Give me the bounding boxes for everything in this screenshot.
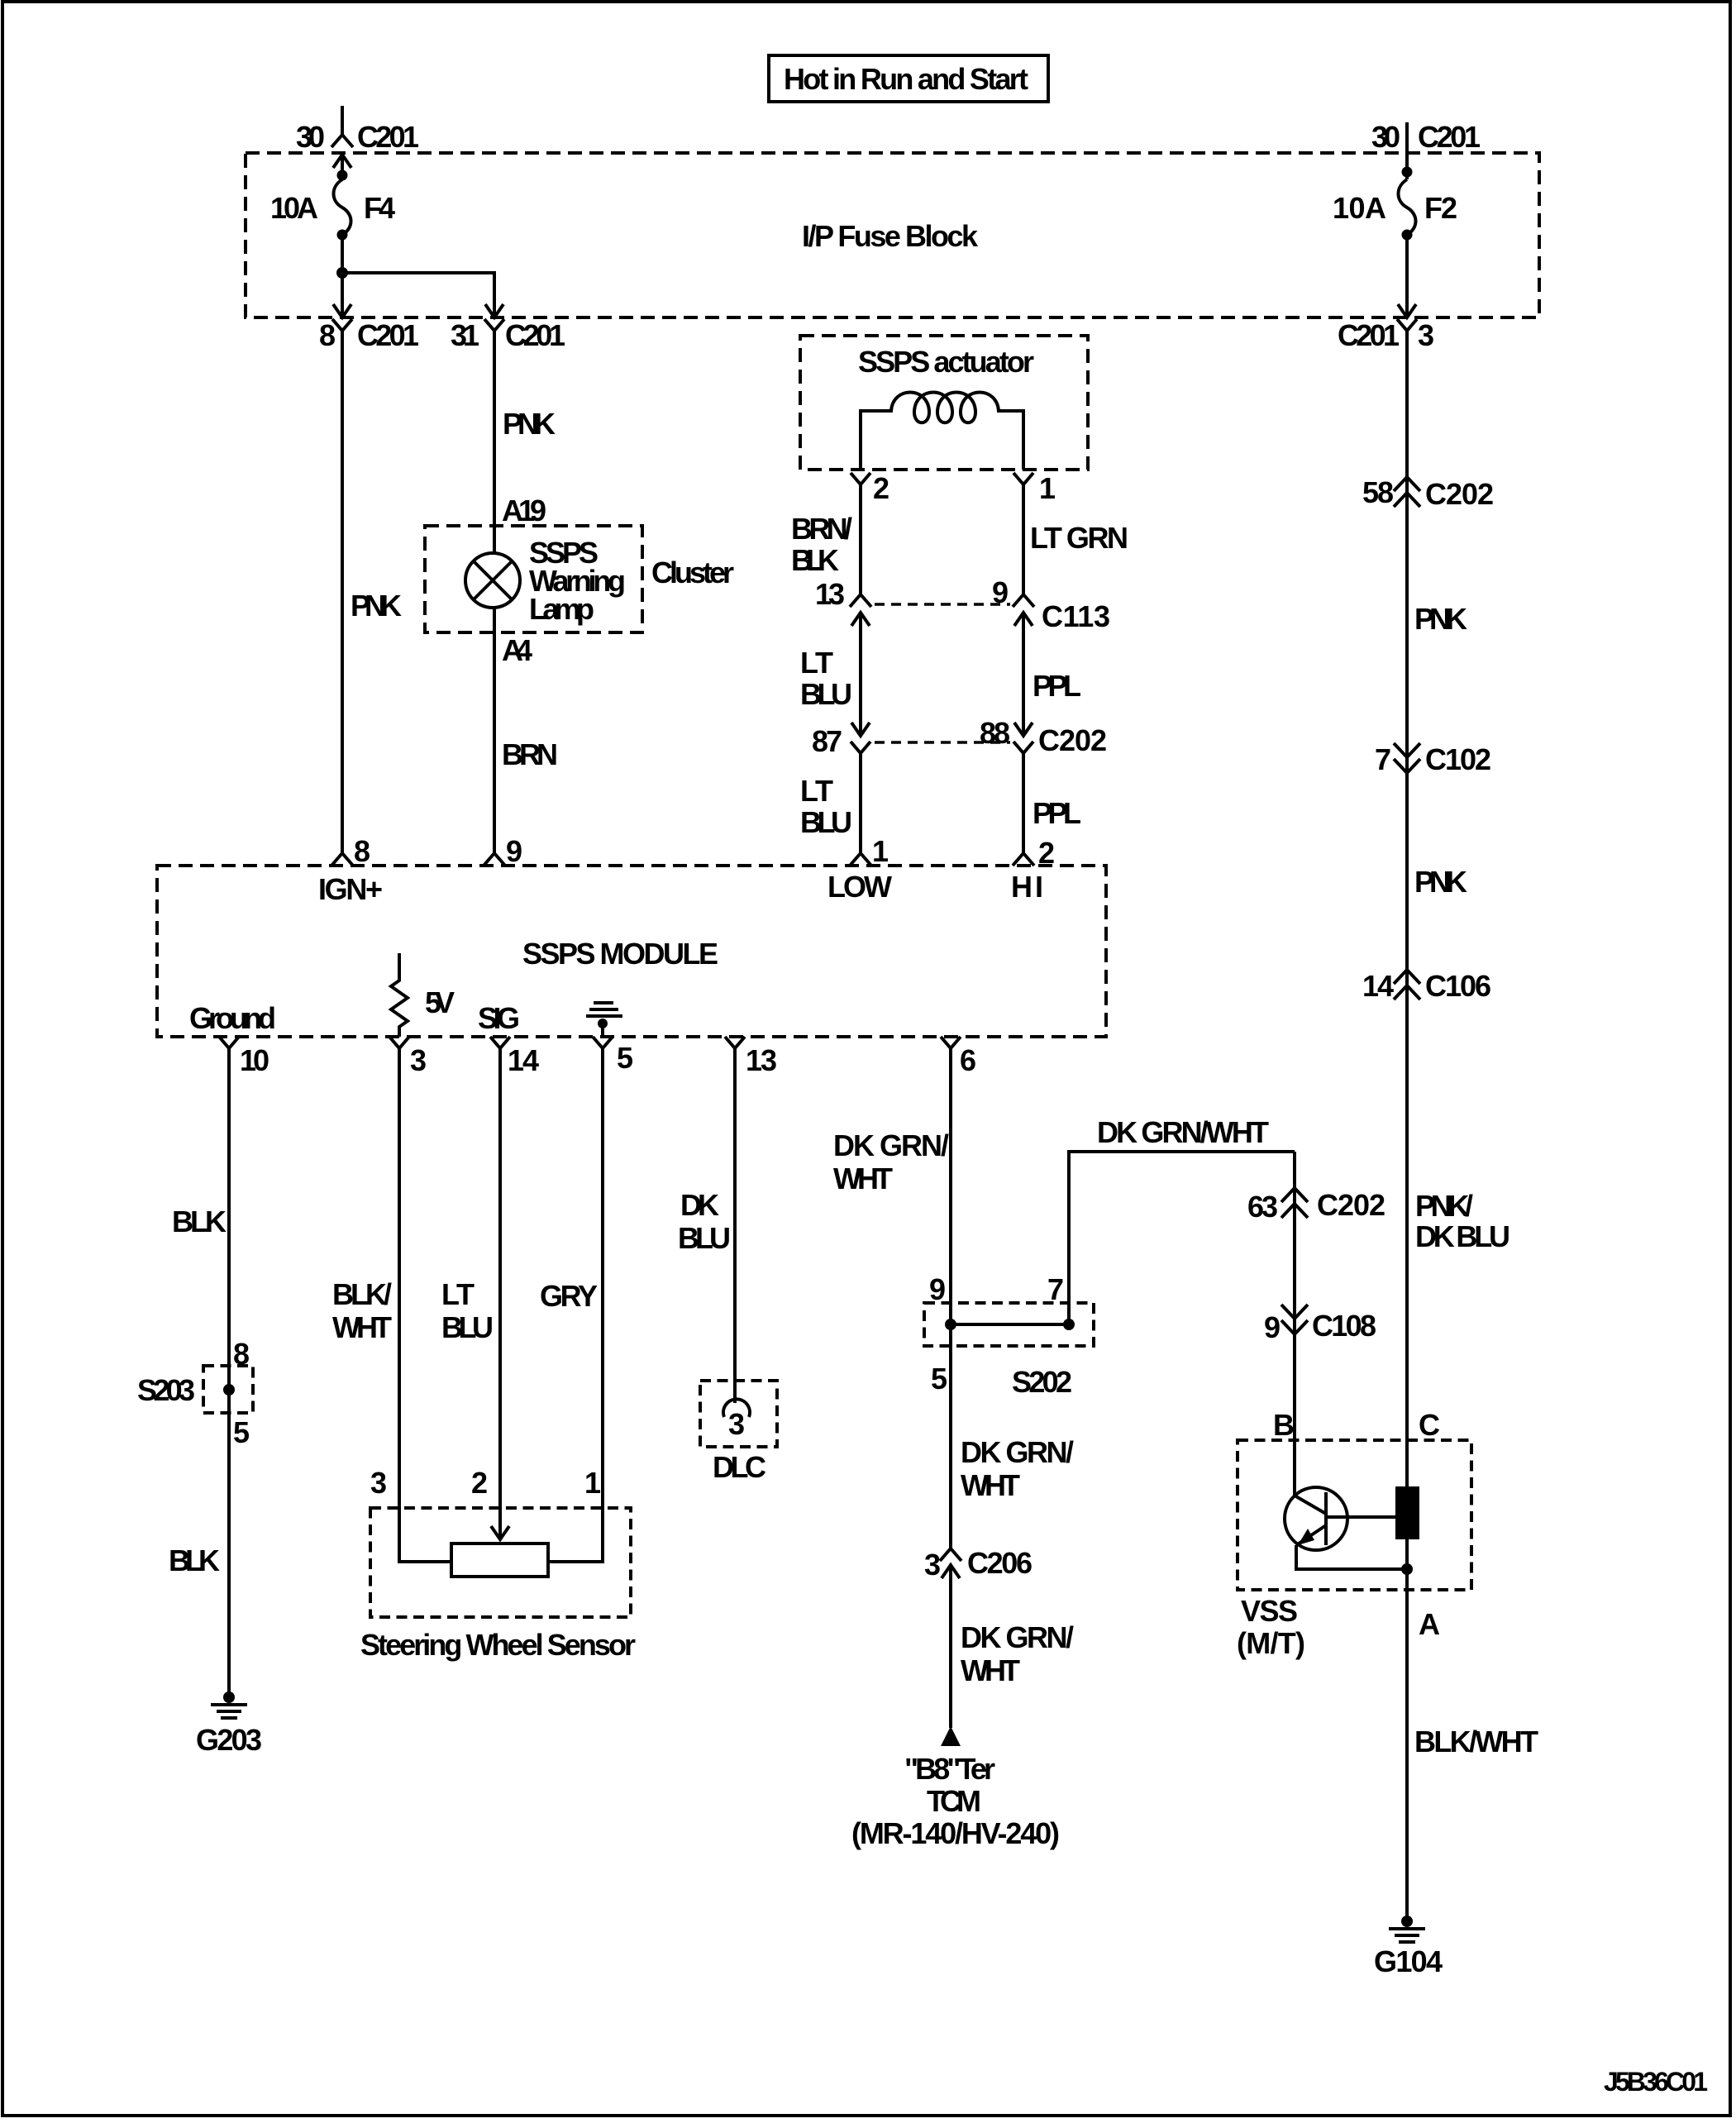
svg-text:C206: C206 [967,1546,1033,1580]
svg-text:PNK: PNK [1414,865,1467,899]
emitter wire to junction A [1296,1545,1402,1569]
connector C202 pin 58 chevrons [1394,477,1420,507]
wire stub above connector 30 C201 (left) [341,106,344,135]
svg-text:14: 14 [508,1043,539,1077]
svg-text:31: 31 [451,318,479,352]
sensor potentiometer element [451,1544,548,1577]
wire pin 8 C201 to SSPS module pin 8 [341,341,344,853]
svg-text:BLU: BLU [441,1310,494,1344]
splice S203 junction dot [223,1384,235,1396]
svg-text:J5B36C01: J5B36C01 [1604,2067,1708,2097]
connector 30 C201 (left) female half [331,135,353,147]
transistor Q1 base bar [1324,1492,1328,1545]
svg-text:PNK: PNK [503,407,556,441]
wire color label DK BLU [678,1188,731,1255]
DLC cavity 3 symbol [723,1399,750,1417]
svg-text:30: 30 [1371,120,1400,154]
svg-text:BLU: BLU [800,677,852,711]
SSPS module pin 8 connector [331,853,353,866]
connector C113 pin 9 female half [1013,594,1034,607]
main wire C201 3 down to G104 [1405,343,1409,1921]
fuse F2 bottom terminal dot [1402,230,1413,241]
wire color label LT BLU [441,1277,494,1344]
svg-text:C106: C106 [1425,969,1491,1003]
svg-text:BLK: BLK [791,543,839,577]
svg-text:F2: F2 [1424,191,1457,225]
svg-text:TCM: TCM [927,1784,981,1818]
connector 30 C201 (left) male arrow [333,155,351,175]
svg-text:C202: C202 [1317,1188,1385,1222]
connector 8 C201 female half [332,319,352,341]
SSPS Warning Lamp symbol [465,553,520,608]
TCM destination label [851,1752,1060,1850]
svg-text:SSPS actuator: SSPS actuator [858,345,1034,379]
svg-text:C201: C201 [1338,318,1400,352]
fuse F4 bottom terminal dot [337,230,348,241]
svg-text:G104: G104 [1374,1944,1443,1978]
Steering Wheel Sensor box [370,1508,631,1617]
svg-text:3: 3 [410,1043,427,1077]
svg-text:87: 87 [812,724,842,758]
connector C113 dashed link [875,603,1010,606]
svg-text:WHT: WHT [332,1310,392,1344]
svg-text:5V: 5V [425,985,455,1019]
wire color label PNK/DK BLU [1415,1189,1510,1253]
svg-text:BRN/: BRN/ [791,512,852,546]
connector C113 pin 13 male arrow [851,613,870,736]
SSPS module pin 9 connector [484,853,505,866]
fuse F2 element [1399,179,1416,235]
wire stub above connector 30 C201 (right) [1405,122,1409,179]
svg-text:A: A [1419,1607,1440,1641]
svg-text:9: 9 [506,834,522,868]
svg-text:S202: S202 [1012,1365,1072,1399]
connector C113 pin 13 female half [850,594,871,607]
I/P Fuse Block box [246,153,1539,317]
title box Hot in Run and Start [769,55,1048,102]
svg-text:C201: C201 [505,318,565,352]
wire color label LT BLU (lower) [800,774,852,839]
svg-text:DK GRN/: DK GRN/ [961,1620,1074,1654]
svg-text:88: 88 [980,716,1010,750]
svg-text:BLK/WHT: BLK/WHT [1414,1725,1538,1758]
fuse F4 top terminal dot [337,170,348,181]
svg-text:BLK: BLK [172,1205,227,1238]
svg-text:PPL: PPL [1033,796,1081,830]
svg-text:BLK/: BLK/ [332,1277,392,1311]
svg-text:BLU: BLU [800,805,852,839]
wire branch to pin 31 C201 [342,273,494,317]
svg-text:10A: 10A [270,191,318,225]
svg-text:13: 13 [815,577,845,611]
svg-text:PNK: PNK [1414,602,1467,636]
transistor Q1 emitter lead [1296,1525,1326,1545]
svg-text:BLK: BLK [169,1544,220,1577]
svg-text:3: 3 [924,1548,941,1582]
svg-text:5: 5 [233,1415,250,1449]
svg-text:10: 10 [240,1043,269,1077]
svg-text:1: 1 [584,1466,601,1500]
svg-text:IGN+: IGN+ [318,872,383,906]
wire actuator pin 2 to C113 pin 13 [859,496,862,594]
svg-text:BRN: BRN [502,737,558,771]
svg-text:Ground: Ground [189,1001,276,1035]
wire color label DK GRN/WHT (above C206) [961,1435,1074,1502]
connector C201 3 female half [1397,319,1417,343]
svg-text:DLC: DLC [713,1450,766,1484]
svg-text:5: 5 [931,1362,947,1396]
transistor Q1 collector lead [1326,1515,1395,1519]
svg-text:DK GRN/: DK GRN/ [961,1435,1074,1469]
wire color label BRN/BLK [791,512,852,577]
wire color label DK GRN/WHT (below C206) [961,1620,1074,1687]
svg-text:C: C [1419,1408,1440,1442]
actuator pin 2 connector [851,473,870,496]
connector C202 dashed link [875,741,1010,744]
svg-text:DK BLU: DK BLU [1415,1219,1510,1253]
svg-text:C102: C102 [1425,742,1491,776]
svg-text:Cluster: Cluster [651,556,734,589]
module pin 5 connector [593,1037,613,1063]
svg-text:C202: C202 [1038,723,1107,757]
svg-text:Hot in Run and Start: Hot in Run and Start [784,62,1028,96]
wire color label BLK/WHT [332,1277,392,1344]
svg-text:7: 7 [1375,742,1391,776]
splice S202 box [924,1303,1094,1346]
wire lamp to module pin 9 [493,608,496,853]
svg-text:LT: LT [800,774,833,808]
wire module pin 3 to steering wheel sensor pin 3 [399,1063,451,1562]
VSS label [1237,1594,1305,1660]
svg-text:WHT: WHT [961,1653,1020,1687]
off-page terminal to TCM [941,1726,961,1746]
svg-text:F4: F4 [364,191,395,225]
svg-text:14: 14 [1362,969,1394,1003]
svg-text:I/P Fuse Block: I/P Fuse Block [802,219,979,253]
svg-text:C108: C108 [1312,1309,1376,1343]
connector C106 pin 14 chevrons [1394,970,1420,1000]
fuse F4 element [334,179,351,235]
svg-text:Lamp: Lamp [529,592,594,626]
svg-text:1: 1 [872,834,889,868]
splice S202 junction dot left [945,1319,956,1330]
SSPS MODULE box [157,866,1106,1037]
svg-text:A4: A4 [502,633,532,667]
svg-text:DK GRN/: DK GRN/ [833,1128,949,1162]
svg-text:LOW: LOW [827,870,892,904]
svg-text:C113: C113 [1042,599,1110,633]
module pin 13 connector [725,1037,745,1063]
svg-text:9: 9 [992,575,1009,609]
junction dot below F4 [336,267,348,279]
svg-text:9: 9 [1264,1310,1281,1344]
svg-text:8: 8 [319,318,336,352]
wire module pin 6 to C206 [949,1063,952,1548]
svg-text:C201: C201 [357,318,419,352]
svg-text:10A: 10A [1333,191,1386,225]
Cluster box [425,526,642,632]
svg-text:LT GRN: LT GRN [1030,521,1128,555]
connector C202 pin 63 chevrons [1281,1188,1308,1218]
actuator pin 1 connector [1013,473,1033,496]
SSPS Warning Lamp label [529,536,626,626]
svg-text:VSS: VSS [1241,1594,1298,1628]
svg-text:8: 8 [354,834,370,868]
svg-text:GRY: GRY [540,1279,598,1313]
connector C102 pin 7 chevrons [1394,743,1420,773]
svg-text:G203: G203 [196,1723,262,1757]
connector C108 pin 9 chevrons [1281,1305,1308,1334]
svg-text:A19: A19 [502,494,546,527]
svg-text:(MR-140/HV-240): (MR-140/HV-240) [851,1816,1060,1850]
svg-text:(M/T): (M/T) [1237,1626,1305,1660]
svg-text:2: 2 [873,471,889,505]
wire module pin 14 to sensor wiper [491,1063,509,1539]
svg-text:3: 3 [1418,318,1434,352]
splice S202 link wire [951,1323,1069,1326]
connector 8 C201 male arrow [333,304,351,317]
VSS pickup element [1395,1486,1419,1539]
svg-text:B: B [1273,1408,1295,1442]
SSPS actuator box [800,336,1088,470]
wire module pin 5 to sensor pin 1 [548,1063,603,1562]
svg-text:"B8"Ter: "B8"Ter [904,1752,995,1786]
svg-text:DK GRN/WHT: DK GRN/WHT [1097,1115,1269,1149]
svg-text:LT: LT [441,1277,475,1311]
junction dot at VSS output [1401,1563,1413,1575]
SSPS module pin 2 connector [1013,853,1034,866]
svg-text:13: 13 [746,1043,777,1077]
svg-text:3: 3 [370,1466,387,1500]
svg-text:HI: HI [1011,870,1043,904]
module internal ground symbol [586,1003,622,1037]
wire color label LT BLU (upper) [800,646,852,711]
connector C113 pin 9 male arrow [1014,613,1033,736]
actuator coil L1 [861,393,1023,470]
svg-text:WHT: WHT [833,1162,893,1195]
svg-text:DK: DK [680,1188,719,1222]
svg-text:PPL: PPL [1033,669,1081,703]
svg-text:BLU: BLU [678,1221,731,1255]
wire module pin 10 to G203 [227,1063,231,1697]
svg-text:3: 3 [728,1407,745,1441]
internal pull-up resistor 5V [391,953,408,1037]
svg-text:C201: C201 [357,120,419,154]
svg-text:SIG: SIG [478,1001,520,1035]
VSS box [1238,1440,1471,1590]
connector C202 pin 88 male arrow [1014,723,1033,736]
module pin 14 connector [490,1037,510,1063]
wire C202 63 down to VSS pin B [1293,1152,1296,1497]
wire pin 31 C201 to cluster lamp [493,341,496,553]
connector 31 C201 male arrow [485,304,503,317]
wire color label DK GRN/WHT (pin 6) [833,1128,949,1195]
wire S202 pin 7 riser to C202 pin 63 [1069,1152,1295,1324]
svg-text:C202: C202 [1425,477,1494,511]
connector C202 pin 87 male arrow [851,723,870,736]
fuse F2 top terminal dot [1402,167,1413,178]
svg-text:58: 58 [1362,475,1394,509]
svg-text:9: 9 [929,1272,946,1306]
splice S202 junction dot right [1063,1319,1075,1330]
connector C206 pin 3 male arrow [942,1565,960,1728]
transistor Q1 base lead [1295,1496,1326,1514]
module pin 3 connector [389,1037,409,1063]
connector C202 pin 88 female half [1013,742,1033,853]
connector C201 3 male arrow [1398,304,1416,317]
module pin 6 connector [941,1037,961,1063]
svg-text:2: 2 [471,1466,488,1500]
svg-text:63: 63 [1247,1190,1278,1224]
svg-text:1: 1 [1039,471,1056,505]
svg-text:LT: LT [800,646,833,680]
svg-text:SSPS MODULE: SSPS MODULE [522,937,718,971]
svg-text:S203: S203 [137,1373,195,1407]
DLC box [700,1381,777,1447]
splice S203 box [203,1366,253,1413]
svg-text:PNK: PNK [351,589,402,623]
wire from fuse F4 down to pin 8 C201 [341,235,344,317]
svg-text:6: 6 [960,1043,976,1077]
wire module pin 13 to DLC [733,1063,737,1403]
svg-text:5: 5 [617,1041,633,1075]
svg-text:C201: C201 [1418,120,1481,154]
wire actuator pin 1 to C113 pin 9 [1022,496,1025,594]
svg-text:30: 30 [296,120,325,154]
SSPS module pin 1 connector [850,853,871,866]
svg-text:PNK/: PNK/ [1415,1189,1473,1223]
ground G203 symbol [211,1691,247,1718]
module pin 10 connector [219,1037,239,1063]
connector C202 pin 87 female half [851,742,870,853]
svg-text:7: 7 [1047,1272,1064,1306]
svg-text:Steering Wheel Sensor: Steering Wheel Sensor [360,1628,636,1662]
connector 31 C201 female half [484,319,504,341]
svg-text:WHT: WHT [961,1468,1020,1502]
connector C206 pin 3 female half [940,1548,961,1561]
wire fuse F2 to connector C201 pin 3 [1405,235,1409,317]
transistor Q1 circle [1285,1487,1347,1550]
ground G104 symbol [1389,1916,1425,1942]
